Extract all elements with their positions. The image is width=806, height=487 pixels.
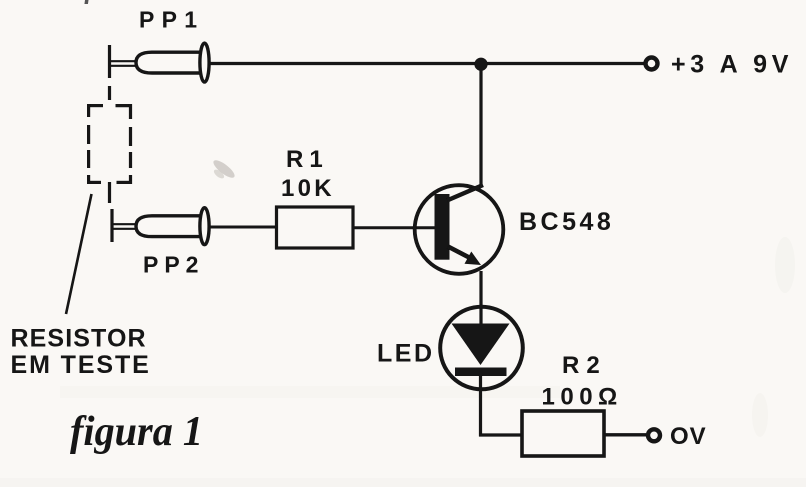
svg-text:figura 1: figura 1 <box>70 409 203 455</box>
svg-text:OV: OV <box>670 423 707 450</box>
svg-text:100Ω: 100Ω <box>542 384 623 411</box>
svg-text:+3 A 9V: +3 A 9V <box>671 51 793 79</box>
svg-text:RESISTOR: RESISTOR <box>11 325 147 353</box>
svg-text:10K: 10K <box>281 175 335 202</box>
svg-text:EM TESTE: EM TESTE <box>11 351 151 379</box>
svg-text:PP1: PP1 <box>139 7 204 33</box>
svg-text:BC548: BC548 <box>519 208 614 236</box>
svg-text:R2: R2 <box>562 352 607 379</box>
svg-text:LED: LED <box>377 340 435 368</box>
svg-text:R1: R1 <box>286 146 329 173</box>
svg-text:PP2: PP2 <box>143 252 204 278</box>
